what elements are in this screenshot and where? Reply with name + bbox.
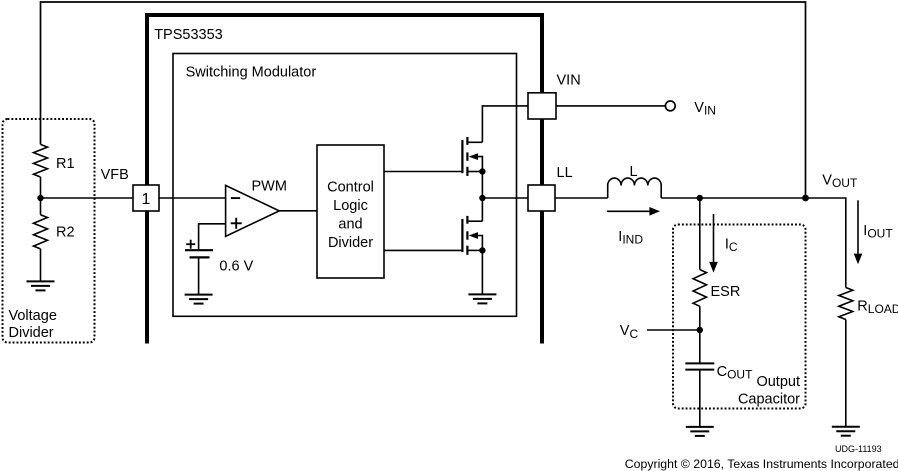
pin LL box [528,165,573,211]
wire VOUT net: inductor to RLOAD top [661,198,846,288]
svg-text:COUT: COUT [717,364,753,382]
wire VFB net: divider tap to op-amp inverting input [41,197,226,199]
wire op-amp output PWM to control logic [279,210,317,212]
wire LL node to low-side drain [481,198,483,221]
wire high-side drain to VIN pin [482,106,542,142]
svg-text:Divider: Divider [328,235,373,251]
svg-text:Output: Output [756,374,800,390]
output capacitor caption [738,374,800,407]
terminal VIN circle [665,100,716,118]
svg-text:Copyright © 2016, Texas Instru: Copyright © 2016, Texas Instruments Inco… [625,457,898,471]
svg-text:IOUT: IOUT [863,223,893,241]
wire op-amp noninverting input to 0.6V reference [199,224,226,250]
arrow IOUT load current [854,200,894,264]
wire LL net: switch node to inductor [482,197,607,199]
label Switching Modulator [186,65,317,81]
svg-text:0.6 V: 0.6 V [219,259,253,275]
arrow IC capacitor current [709,214,738,273]
svg-text:Switching Modulator: Switching Modulator [186,65,317,81]
wire output capacitor branch: VOUT tap through ESR to COUT [699,198,701,363]
node VOUT tap to output capacitor [697,195,703,201]
voltage divider caption [9,308,57,341]
ground under R2 [27,281,55,290]
wire 0.6V reference to ground [198,257,200,294]
svg-text:R2: R2 [56,225,75,241]
node VFB divider tap junction [37,195,43,201]
wire R1 to R2 [40,177,42,215]
inductor L [608,164,662,198]
transistor Q2 low-side FET [462,216,485,255]
wire feedback from VOUT to R1 top [41,2,806,198]
arrow IIND inductor current [607,207,660,247]
node LL switch junction [479,195,485,201]
svg-text:R1: R1 [56,156,75,172]
svg-text:VIN: VIN [557,72,581,88]
svg-text:Voltage: Voltage [9,308,57,324]
svg-text:VC: VC [620,323,639,341]
output capacitor dashed box [673,225,806,409]
switching modulator block box [173,54,517,317]
svg-text:Control: Control [327,180,374,196]
node VC junction [620,323,703,341]
svg-text:Capacitor: Capacitor [738,391,800,407]
svg-text:IIND: IIND [618,229,643,247]
IC TPS53353 boundary box [147,15,542,344]
wire RLOAD bottom to ground [845,320,847,427]
svg-text:VIN: VIN [694,100,716,118]
svg-text:TPS53353: TPS53353 [154,27,223,43]
label TPS53353 [154,27,223,43]
ground under COUT [686,427,714,436]
svg-text:ESR: ESR [711,284,741,300]
svg-text:UDG-11193: UDG-11193 [835,444,882,454]
resistor R1 [34,144,75,177]
ground under low-side FET [468,294,496,303]
voltage divider dashed box [3,119,95,343]
node VOUT junction [802,172,858,201]
resistor RLOAD [839,288,898,320]
svg-text:IC: IC [725,237,738,255]
ground under RLOAD [832,427,860,436]
pin VIN box [528,72,581,119]
svg-text:Divider: Divider [9,325,54,341]
wire high-side source to LL node [481,172,483,199]
wire R2 to ground [40,249,42,282]
voltage source 0.6V reference [185,240,254,275]
wire VC sense lead [647,329,700,331]
label UDG-11193 [835,444,882,454]
op-amp PWM comparator [226,178,287,236]
svg-text:1: 1 [142,191,151,208]
svg-text:PWM: PWM [252,178,287,194]
svg-text:Logic: Logic [333,198,368,214]
wire control logic to high-side gate [384,171,462,173]
control logic block U-CTL [317,145,384,278]
pin 1 VFB box [133,185,159,211]
wire control logic to low-side gate [384,249,462,251]
resistor R2 [34,215,75,249]
resistor ESR [693,270,740,307]
svg-text:L: L [630,164,638,180]
wire low-side source to ground [481,250,483,294]
capacitor COUT [685,363,753,381]
wire COUT bottom to ground [699,370,701,427]
label VFB [101,167,129,183]
ground under 0.6V reference [185,295,213,304]
svg-text:LL: LL [557,165,573,181]
wire VIN pin to VIN terminal [542,105,665,107]
transistor Q1 high-side FET [462,137,485,176]
svg-text:and: and [338,216,362,232]
svg-text:VOUT: VOUT [822,172,858,190]
svg-text:RLOAD: RLOAD [857,299,898,317]
svg-text:VFB: VFB [101,167,129,183]
label copyright [625,457,898,471]
